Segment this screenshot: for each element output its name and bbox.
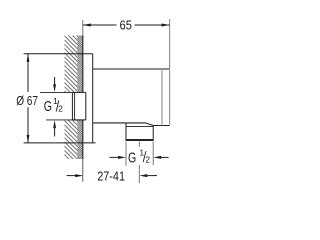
body bottom edge bbox=[93, 122, 146, 124]
body front face with 65 extension line bbox=[169, 19, 171, 126]
dimension 27-41 right arrowhead bbox=[139, 174, 147, 177]
outlet right edge bbox=[152, 126, 154, 142]
svg-text:Ø 67: Ø 67 bbox=[16, 93, 38, 108]
outlet left edge bbox=[125, 123, 127, 141]
wall hatching upper band (short strokes near face) bbox=[77, 36, 83, 93]
svg-text:G: G bbox=[44, 98, 52, 115]
fitting left edge inner (thread) bbox=[74, 92, 76, 120]
svg-text:27-41: 27-41 bbox=[97, 169, 125, 184]
outlet white fill bbox=[126, 123, 153, 141]
dimension 65 left arrowhead bbox=[83, 24, 91, 27]
svg-text:2: 2 bbox=[145, 154, 150, 164]
body top edge bbox=[93, 68, 170, 70]
G1/2 left top extension line bbox=[40, 91, 72, 93]
escutcheon bottom edge with dimension extension line bbox=[24, 142, 96, 144]
fitting body white fill bbox=[72, 92, 85, 120]
outlet bottom edge thick bbox=[126, 139, 154, 141]
outlet shoulder line bbox=[126, 126, 153, 128]
fitting top edge bbox=[72, 91, 85, 93]
G1/2 bottom right arrowhead bbox=[153, 156, 161, 159]
dimension 65 right arrowhead bbox=[162, 24, 170, 27]
dimension 65 line right segment bbox=[135, 24, 170, 26]
wall hatching upper band (long strokes) bbox=[65, 36, 83, 93]
dimension 27-41 left arrow shaft bbox=[67, 175, 76, 177]
wall hatching lower band (long strokes) bbox=[65, 120, 83, 159]
G1/2 left top arrowhead bbox=[53, 84, 56, 92]
fitting bottom edge bbox=[72, 119, 85, 121]
outlet centerline lower segment / 27-41 extension bbox=[138, 165, 140, 183]
wall face extension line above wall bbox=[82, 20, 84, 36]
escutcheon white fill bbox=[83, 54, 93, 143]
G1/2 bottom left arrow shaft bbox=[110, 156, 119, 158]
G1/2 left bottom extension line bbox=[46, 119, 72, 121]
svg-text:2: 2 bbox=[58, 104, 63, 114]
body front ring line bbox=[161, 69, 163, 126]
wall face line upper segment bbox=[82, 36, 84, 93]
svg-text:65: 65 bbox=[120, 18, 132, 33]
G1/2 bottom right extension line bbox=[152, 142, 154, 166]
G1/2 bottom label fraction slash bbox=[143, 151, 146, 162]
dimension 65 line left segment bbox=[83, 24, 117, 26]
body white fill bbox=[93, 69, 170, 126]
svg-text:1: 1 bbox=[139, 148, 144, 158]
G1/2 bottom left extension line bbox=[125, 142, 127, 166]
G1/2 left bottom arrow shaft bbox=[54, 128, 56, 137]
dimension O67 line upper segment bbox=[27, 54, 29, 92]
G1/2 left top arrow shaft bbox=[54, 77, 56, 85]
escutcheon front edge bbox=[92, 54, 94, 143]
G1/2 left bottom arrowhead bbox=[53, 120, 56, 128]
wall hatching lower band (short strokes near face) bbox=[77, 120, 83, 159]
G1/2 left label fraction slash bbox=[56, 100, 59, 111]
G1/2 bottom right arrow shaft bbox=[161, 156, 169, 158]
wall face extension line below wall (27-41) bbox=[82, 159, 84, 182]
dimension O67 down arrowhead bbox=[27, 135, 30, 143]
outlet centerline upper segment bbox=[138, 142, 140, 147]
fitting front edge bbox=[85, 92, 87, 120]
dimension O67 up arrowhead bbox=[27, 54, 30, 62]
body bottom front edge bbox=[153, 125, 169, 127]
dimension 27-41 left arrowhead bbox=[75, 174, 83, 177]
body bottom chamfer bbox=[145, 123, 153, 126]
escutcheon top edge with dimension extension line bbox=[24, 53, 93, 55]
wall face line lower segment bbox=[82, 120, 84, 159]
fitting left edge outer bbox=[71, 92, 73, 120]
dimension 27-41 right arrow shaft bbox=[147, 175, 157, 177]
G1/2 bottom left arrowhead bbox=[118, 156, 126, 159]
svg-text:G: G bbox=[128, 149, 136, 166]
dimension O67 line lower segment bbox=[27, 107, 29, 143]
